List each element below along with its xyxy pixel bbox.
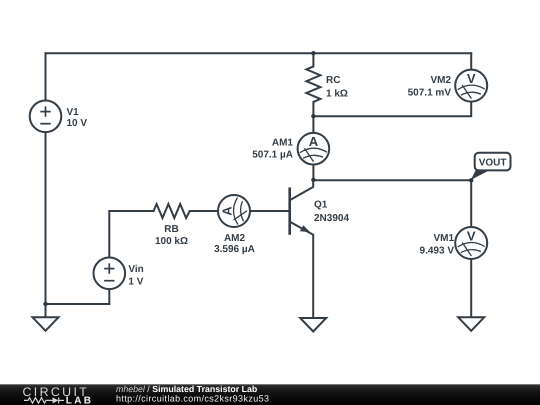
wire Vin top to base row (109, 211, 153, 258)
wire AM2 to Q1 base (250, 210, 290, 212)
svg-text:AM1: AM1 (272, 137, 294, 148)
label Q1 type (314, 200, 349, 224)
ammeter AM1 (298, 133, 330, 165)
svg-text:LAB: LAB (66, 395, 93, 405)
wire VOUT node to VM1 (470, 180, 472, 227)
wire RC bottom lead (312, 102, 314, 116)
footer title text (116, 384, 269, 403)
wire Vin bottom stub (108, 289, 110, 304)
voltmeter VM1 (455, 227, 487, 259)
svg-text:V1: V1 (67, 107, 80, 118)
ground (below VM1) (458, 317, 484, 331)
ground (below Q1 emitter) (300, 318, 326, 332)
svg-text:http://circuitlab.com/cs2ksr93: http://circuitlab.com/cs2ksr93kzu53 (116, 393, 269, 403)
wire collector to VOUT node (313, 179, 471, 181)
svg-text:1 V: 1 V (128, 277, 143, 288)
wire RB to AM2 (190, 210, 218, 212)
ground (left, below V1/Vin) (33, 317, 59, 331)
label AM2 value (214, 233, 255, 255)
svg-text:10 V: 10 V (67, 118, 88, 129)
svg-text:RB: RB (164, 224, 178, 235)
logo CircuitLab wordmark (23, 385, 94, 405)
label VM2 value (408, 75, 452, 99)
label RC value (326, 75, 348, 100)
wire collector node up to AM1 (312, 165, 314, 180)
svg-text:507.1 mV: 507.1 mV (408, 88, 452, 99)
resistor RB (154, 204, 190, 218)
wire left rail upper (45, 53, 47, 100)
footer bar (0, 384, 540, 405)
voltage source Vin (94, 258, 126, 290)
wire bottom-left horizontal (46, 303, 110, 305)
svg-text:RC: RC (326, 75, 340, 86)
svg-text:AM2: AM2 (224, 233, 246, 244)
voltmeter VM2 (455, 70, 487, 102)
svg-text:A: A (220, 206, 235, 216)
label Vin value (128, 264, 143, 288)
svg-text:VM2: VM2 (430, 75, 451, 86)
wire VM1 bottom to ground (470, 259, 472, 317)
flag VOUT (471, 153, 511, 180)
svg-text:A: A (309, 134, 319, 149)
junction node collector (311, 178, 315, 182)
junction node top rail / RC (311, 51, 315, 55)
resistor RC (306, 66, 320, 102)
logo resistor-diode squiggle (24, 397, 64, 403)
wire left rail lower (45, 132, 47, 317)
wire top rail (46, 52, 472, 54)
svg-text:1 kΩ: 1 kΩ (326, 89, 348, 100)
svg-text:V: V (467, 71, 476, 86)
label VM1 value (420, 233, 455, 257)
wire emitter down (312, 235, 314, 318)
svg-text:9.493 V: 9.493 V (420, 246, 455, 257)
svg-text:VM1: VM1 (433, 233, 454, 244)
svg-text:3.596 µA: 3.596 µA (214, 244, 255, 255)
svg-text:VOUT: VOUT (479, 158, 507, 169)
svg-text:Q1: Q1 (314, 200, 328, 211)
wire node to VM2 bottom (313, 102, 471, 117)
junction node RC / AM1 / VM2 return (311, 114, 315, 118)
svg-text:507.1 µA: 507.1 µA (252, 149, 293, 160)
transistor Q1 (290, 180, 314, 235)
svg-text:Vin: Vin (128, 264, 143, 275)
svg-text:2N3904: 2N3904 (314, 213, 349, 224)
label AM1 value (252, 137, 293, 160)
junction node bottom-left (43, 302, 47, 306)
svg-text:V: V (467, 229, 476, 244)
wire VM2 top stub (470, 53, 472, 69)
voltage source V1 (30, 101, 62, 133)
junction node VOUT (469, 178, 473, 182)
label RB value (155, 224, 188, 247)
label V1 value (67, 107, 88, 129)
ammeter AM2 (218, 195, 250, 227)
wire RC top lead (312, 53, 314, 66)
svg-text:100 kΩ: 100 kΩ (155, 236, 188, 247)
wire AM1 top to RC bottom node (312, 116, 314, 133)
